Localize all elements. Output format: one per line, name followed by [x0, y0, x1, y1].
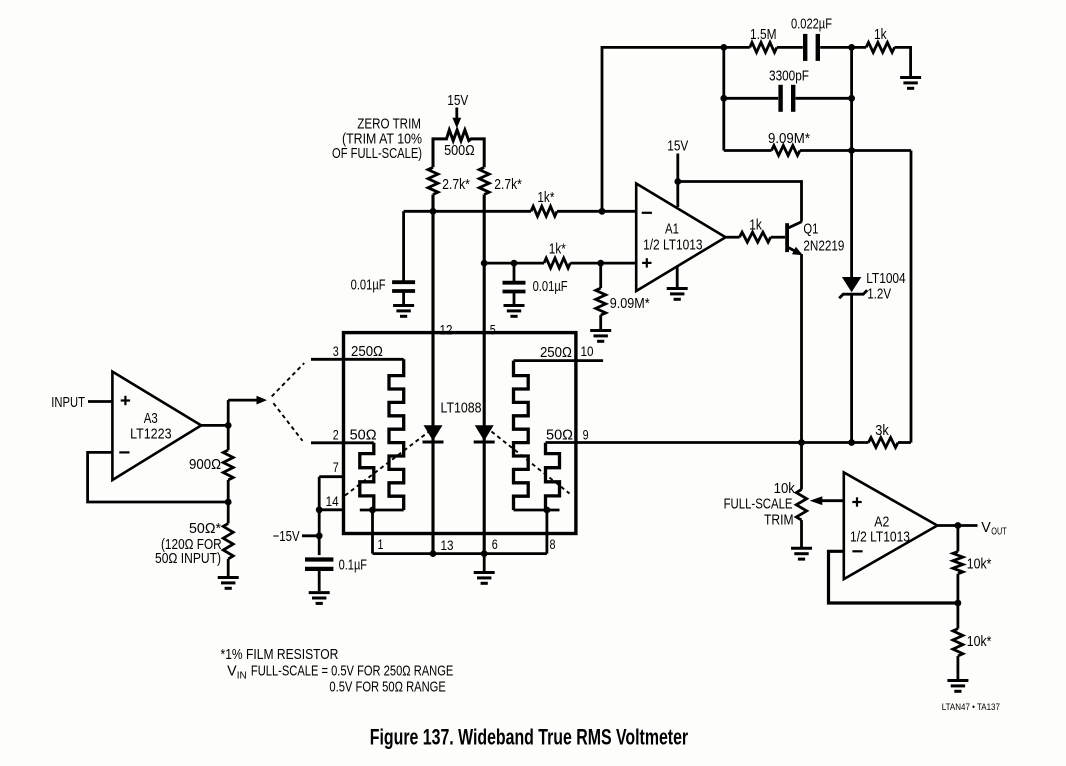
- wire pin 14 stub: [319, 508, 343, 511]
- svg-text:1k*: 1k*: [549, 240, 567, 257]
- pin label 5: [490, 322, 496, 337]
- label -15V: [273, 527, 300, 544]
- note Vin full-scale line: [227, 662, 453, 682]
- capacitor 0.01uF right: [503, 277, 568, 294]
- capacitor 0.1uF: [305, 556, 367, 573]
- ground below 10k* divider: [947, 681, 968, 692]
- note 50 ohm range line: [329, 678, 446, 695]
- label 15V supply A1: [667, 137, 688, 154]
- node junction pin5 / non-inverting row: [481, 260, 488, 267]
- capacitor 0.01uF left: [351, 276, 415, 293]
- resistor 3k: [869, 421, 899, 448]
- resistor 900 ohm: [189, 425, 233, 480]
- pin label 8: [549, 537, 555, 552]
- pin label 10: [581, 344, 594, 359]
- heater resistor 50 ohm right meander: [546, 443, 560, 510]
- wire pin9 row to 3k: [546, 441, 869, 444]
- svg-text:FULL-SCALE = 0.5V FOR 250Ω RAN: FULL-SCALE = 0.5V FOR 250Ω RANGE: [251, 662, 454, 679]
- wire A3 output to node: [201, 424, 228, 427]
- resistor 2.7k* right: [479, 167, 522, 194]
- wire inverting row right segment: [557, 210, 636, 213]
- svg-text:3300pF: 3300pF: [769, 67, 809, 84]
- resistor 1.5M: [750, 26, 777, 53]
- svg-text:0.01µF: 0.01µF: [351, 276, 386, 293]
- wire left 0.01uF to ground: [402, 291, 405, 304]
- svg-text:7: 7: [333, 460, 339, 475]
- wire 0.1uF to ground: [318, 569, 321, 591]
- resistor 2.7k* left: [428, 167, 470, 194]
- dashed range select lower: [273, 403, 302, 441]
- node junction 15V / collector wire: [674, 178, 681, 185]
- wire 10k* lower to ground: [957, 656, 960, 679]
- note 1% film resistor: [221, 646, 339, 663]
- wire A3 feedback loop: [88, 452, 229, 502]
- value label 250 ohm left: [351, 342, 383, 359]
- svg-text:9.09M*: 9.09M*: [768, 129, 810, 146]
- svg-text:V: V: [981, 519, 991, 535]
- op-amp A1 1/2 LT1013: [636, 184, 725, 292]
- svg-text:5: 5: [490, 322, 496, 337]
- svg-text:Q1: Q1: [803, 220, 818, 237]
- svg-text:1k: 1k: [749, 216, 762, 233]
- ground below top 1k: [900, 78, 921, 89]
- wire bus to ground: [483, 554, 486, 571]
- svg-text:10k: 10k: [774, 479, 796, 496]
- svg-text:9.09M*: 9.09M*: [610, 294, 651, 311]
- wire 9.09M* vertical top lead: [599, 263, 602, 288]
- svg-text:8: 8: [549, 537, 555, 552]
- ground below right 0.01uF: [504, 306, 525, 317]
- wire 3300pF to right vertical: [796, 97, 852, 100]
- wire pin 3 into left 250 ohm heater: [311, 358, 404, 361]
- label 15V above 500 ohm trimpot: [447, 92, 468, 109]
- svg-text:IN: IN: [237, 670, 247, 681]
- wire C 0.022uF to 1k: [820, 46, 866, 49]
- svg-text:FULL-SCALE: FULL-SCALE: [724, 495, 793, 512]
- pin label 13: [441, 538, 454, 553]
- svg-text:2.7k*: 2.7k*: [494, 176, 522, 193]
- svg-text:3: 3: [333, 344, 339, 359]
- node junction 3300pF right: [848, 95, 855, 102]
- node junction emitter / pin9 row: [798, 439, 805, 446]
- pin label 3: [333, 344, 339, 359]
- ground below left 0.01uF: [393, 306, 414, 317]
- node junction Vout: [955, 522, 962, 529]
- wire -15V label lead: [302, 534, 319, 537]
- wire pin 2 into left 50 ohm heater: [311, 441, 374, 444]
- wire LT1004 cathode down to pin9 row: [850, 294, 853, 442]
- wire to 3300pF: [724, 97, 778, 100]
- resistor 1k* inverting row: [531, 188, 557, 216]
- node junction 9.09M* / row: [597, 260, 604, 267]
- potentiometer 500 ohm: [433, 130, 484, 167]
- svg-text:−15V: −15V: [273, 527, 300, 544]
- node junction 3300pF left: [720, 95, 727, 102]
- wire 9.09M to right rail: [800, 149, 911, 152]
- svg-text:900Ω: 900Ω: [189, 455, 221, 472]
- heater resistor 50 ohm left meander: [360, 443, 374, 510]
- pin label 6: [492, 537, 498, 552]
- wire right outer rail x=911 down to 3k: [910, 151, 913, 443]
- svg-text:1/2 LT1013: 1/2 LT1013: [643, 236, 702, 253]
- pin label 14: [326, 494, 339, 509]
- ground below A1: [667, 289, 688, 300]
- node junction bus pin6: [481, 550, 488, 557]
- resistor 1k base: [740, 216, 771, 242]
- svg-text:0.1µF: 0.1µF: [339, 556, 367, 573]
- dashed thermal coupling left: [345, 432, 429, 496]
- svg-text:LT1088: LT1088: [441, 399, 482, 415]
- wire arrow toward LT1088 inputs: [228, 396, 267, 405]
- resistor 1k top: [866, 26, 894, 53]
- svg-text:2.7k*: 2.7k*: [442, 176, 470, 193]
- svg-text:*1% FILM RESISTOR: *1% FILM RESISTOR: [221, 646, 339, 663]
- node junction bus pin13: [430, 550, 437, 557]
- transistor Q1 2N2219: [785, 220, 844, 255]
- svg-text:LTAN47 • TA137: LTAN47 • TA137: [942, 702, 1000, 713]
- node junction 2.7k-left / inverting row: [430, 208, 437, 215]
- pin label 1: [377, 537, 383, 552]
- wire pin 10 stub: [514, 359, 604, 362]
- svg-text:1k*: 1k*: [537, 188, 555, 205]
- wiper arrow 10k pot to A2: [810, 496, 844, 505]
- wire 1k to ground corner: [895, 47, 911, 76]
- svg-text:15V: 15V: [667, 137, 688, 154]
- wire left vertical branch x=724: [722, 47, 725, 150]
- wire 10k* junction: [957, 574, 960, 629]
- svg-text:3k: 3k: [875, 421, 889, 438]
- potentiometer 10k full-scale trim: [724, 443, 807, 528]
- ground below 50 ohm*: [218, 578, 239, 589]
- resistor 1k* non-inverting row: [544, 240, 570, 268]
- svg-text:500Ω: 500Ω: [444, 141, 475, 158]
- wire 50 ohm* to ground: [227, 559, 230, 576]
- svg-text:Figure 137. Wideband True RMS: Figure 137. Wideband True RMS Voltmeter: [370, 725, 689, 750]
- svg-text:0.5V FOR 50Ω RANGE: 0.5V FOR 50Ω RANGE: [329, 678, 446, 695]
- wire A2 feedback loop: [829, 551, 958, 603]
- svg-text:LT1223: LT1223: [130, 424, 172, 441]
- op-amp A2 1/2 LT1013: [844, 472, 938, 579]
- resistor 50 ohm* input termination: [155, 502, 233, 566]
- node junction feedback A3: [225, 499, 232, 506]
- svg-text:TRIM: TRIM: [764, 511, 793, 528]
- svg-text:INPUT: INPUT: [51, 393, 85, 410]
- wire non-inverting row left segment: [484, 262, 544, 265]
- ground below LT1088 bus: [474, 573, 495, 584]
- node junction LT1004 / pin9 row: [848, 439, 855, 446]
- wire 9.09M row left lead: [724, 149, 772, 152]
- pin label 9: [583, 427, 589, 442]
- svg-text:50Ω: 50Ω: [546, 427, 573, 443]
- wire 1k to Q1 base: [771, 236, 786, 239]
- node junction 10k* divider: [955, 600, 962, 607]
- node junction 0.022uF/1k: [848, 44, 855, 51]
- caption Figure 137: [370, 725, 689, 750]
- svg-text:10: 10: [581, 344, 594, 359]
- svg-text:V: V: [227, 663, 237, 679]
- svg-text:1.2V: 1.2V: [867, 285, 891, 302]
- thermal diode D2 on pin5-6 line: [474, 425, 495, 442]
- svg-text:50Ω: 50Ω: [350, 427, 377, 443]
- IC LT1088 outline box: [344, 333, 576, 534]
- wire left 0.01uF cap lead: [402, 211, 405, 282]
- capacitor 3300pF: [769, 67, 809, 112]
- capacitor 0.022uF: [791, 15, 832, 61]
- node junction left heater common: [369, 507, 376, 514]
- svg-text:50Ω*: 50Ω*: [189, 521, 221, 537]
- svg-text:250Ω: 250Ω: [540, 343, 572, 360]
- zener LT1004 1.2V: [839, 270, 906, 302]
- node junction 0.01uF right / row: [511, 260, 518, 267]
- svg-text:14: 14: [326, 494, 339, 509]
- wire 9.09M* to ground: [599, 315, 602, 329]
- svg-text:2: 2: [333, 427, 339, 442]
- svg-text:6: 6: [492, 537, 498, 552]
- node junction -15V / rail: [316, 532, 323, 539]
- thermal diode D1 on pin12-13 line: [423, 425, 444, 442]
- wire right 0.01uF cap lead: [513, 263, 516, 282]
- svg-text:2N2219: 2N2219: [803, 237, 844, 254]
- wire pin12 vertical from 2.7k left down through LT1088 to bottom bus: [431, 195, 434, 554]
- svg-text:10k*: 10k*: [967, 555, 992, 571]
- wire right heaters common bottom: [514, 509, 560, 512]
- value label 50 ohm right: [546, 427, 573, 443]
- svg-text:ZERO TRIM: ZERO TRIM: [357, 115, 421, 132]
- wire A1 supply node to Q1 collector: [678, 182, 802, 222]
- heater resistor 250 ohm right meander: [514, 361, 529, 510]
- node junction 9.09M/LT1004 rail: [848, 147, 855, 154]
- wire pin 7 stub: [319, 475, 343, 478]
- wire left heaters common bottom: [360, 509, 404, 512]
- svg-text:0.022µF: 0.022µF: [791, 15, 832, 32]
- node junction pin14 / rail: [316, 506, 323, 513]
- pin label 7: [333, 460, 339, 475]
- label LTAN47 TA137: [942, 702, 1000, 713]
- wire A1 output to 1k: [726, 236, 740, 239]
- wire right 0.01uF to ground: [513, 292, 516, 304]
- wire 15V into A1 top edge: [676, 154, 679, 208]
- wire feedback net from A1 inverting input up to top row: [602, 47, 750, 211]
- node junction A3 output: [225, 422, 232, 429]
- node junction feedback / inverting row: [599, 208, 606, 215]
- svg-text:12: 12: [440, 323, 453, 338]
- svg-text:1k: 1k: [874, 26, 887, 43]
- label ZERO TRIM note: [332, 115, 422, 162]
- ground below 0.1uF: [309, 593, 330, 604]
- wiper arrow 15V into 500 ohm pot: [452, 108, 461, 129]
- wire pin 8 from heater common to bus: [546, 510, 549, 554]
- svg-text:10k*: 10k*: [967, 633, 992, 649]
- value label 250 ohm right: [540, 343, 572, 360]
- wire 900 ohm to feedback node: [227, 480, 230, 502]
- svg-text:OUT: OUT: [991, 525, 1007, 537]
- resistor 9.09M* vertical: [596, 288, 651, 315]
- svg-text:1.5M: 1.5M: [750, 26, 776, 43]
- svg-text:50Ω INPUT): 50Ω INPUT): [155, 550, 221, 567]
- wire Q1 emitter down to pin9 row: [800, 254, 803, 443]
- label VOUT: [981, 519, 1007, 536]
- value label 50 ohm left: [350, 427, 377, 443]
- svg-text:250Ω: 250Ω: [351, 342, 383, 359]
- wire right vertical x=851.6 down to LT1004: [850, 47, 853, 277]
- ground below 10k pot: [791, 548, 812, 559]
- ground below 9.09M*: [590, 331, 611, 342]
- wire non-inverting row right segment: [570, 262, 636, 265]
- wire A2 output: [937, 524, 977, 527]
- svg-text:15V: 15V: [447, 92, 468, 109]
- svg-text:13: 13: [441, 538, 454, 553]
- wire pin5 vertical from 2.7k right down through LT1088 to bottom bus: [483, 195, 486, 554]
- wire pin 1 from heater common to bus: [371, 510, 374, 554]
- wire 10k pot to ground: [800, 520, 803, 547]
- resistor 10k* lower: [953, 629, 992, 656]
- wire -15V rail: [318, 477, 321, 555]
- op-amp A3 LT1223: [112, 372, 201, 480]
- dashed thermal coupling right: [492, 432, 570, 494]
- svg-text:1: 1: [377, 537, 383, 552]
- wire 1.5M to C 0.022uF: [777, 46, 803, 49]
- wire 3k to right rail: [898, 441, 911, 444]
- svg-text:9: 9: [583, 427, 589, 442]
- svg-text:A1: A1: [665, 220, 679, 237]
- pin label 2: [333, 427, 339, 442]
- dashed range select upper: [272, 363, 305, 396]
- wire A1 V- to ground: [676, 267, 679, 287]
- wire input lead: [88, 400, 112, 403]
- svg-text:OF FULL-SCALE): OF FULL-SCALE): [332, 144, 422, 161]
- wire inverting row left segment: [404, 210, 531, 213]
- node junction right heater common: [544, 507, 551, 514]
- pin label 12: [440, 323, 453, 338]
- resistor 10k* upper: [953, 526, 992, 574]
- wire bottom bus pins 1-13-6-8: [373, 552, 547, 555]
- wire output node up: [227, 400, 230, 425]
- svg-text:0.01µF: 0.01µF: [533, 277, 568, 294]
- heater resistor 250 ohm left meander: [389, 359, 404, 510]
- svg-text:1/2 LT1013: 1/2 LT1013: [850, 528, 910, 545]
- node junction top-left of 1.5M: [720, 44, 727, 51]
- label INPUT: [51, 393, 85, 410]
- resistor 9.09M* horizontal: [768, 129, 810, 155]
